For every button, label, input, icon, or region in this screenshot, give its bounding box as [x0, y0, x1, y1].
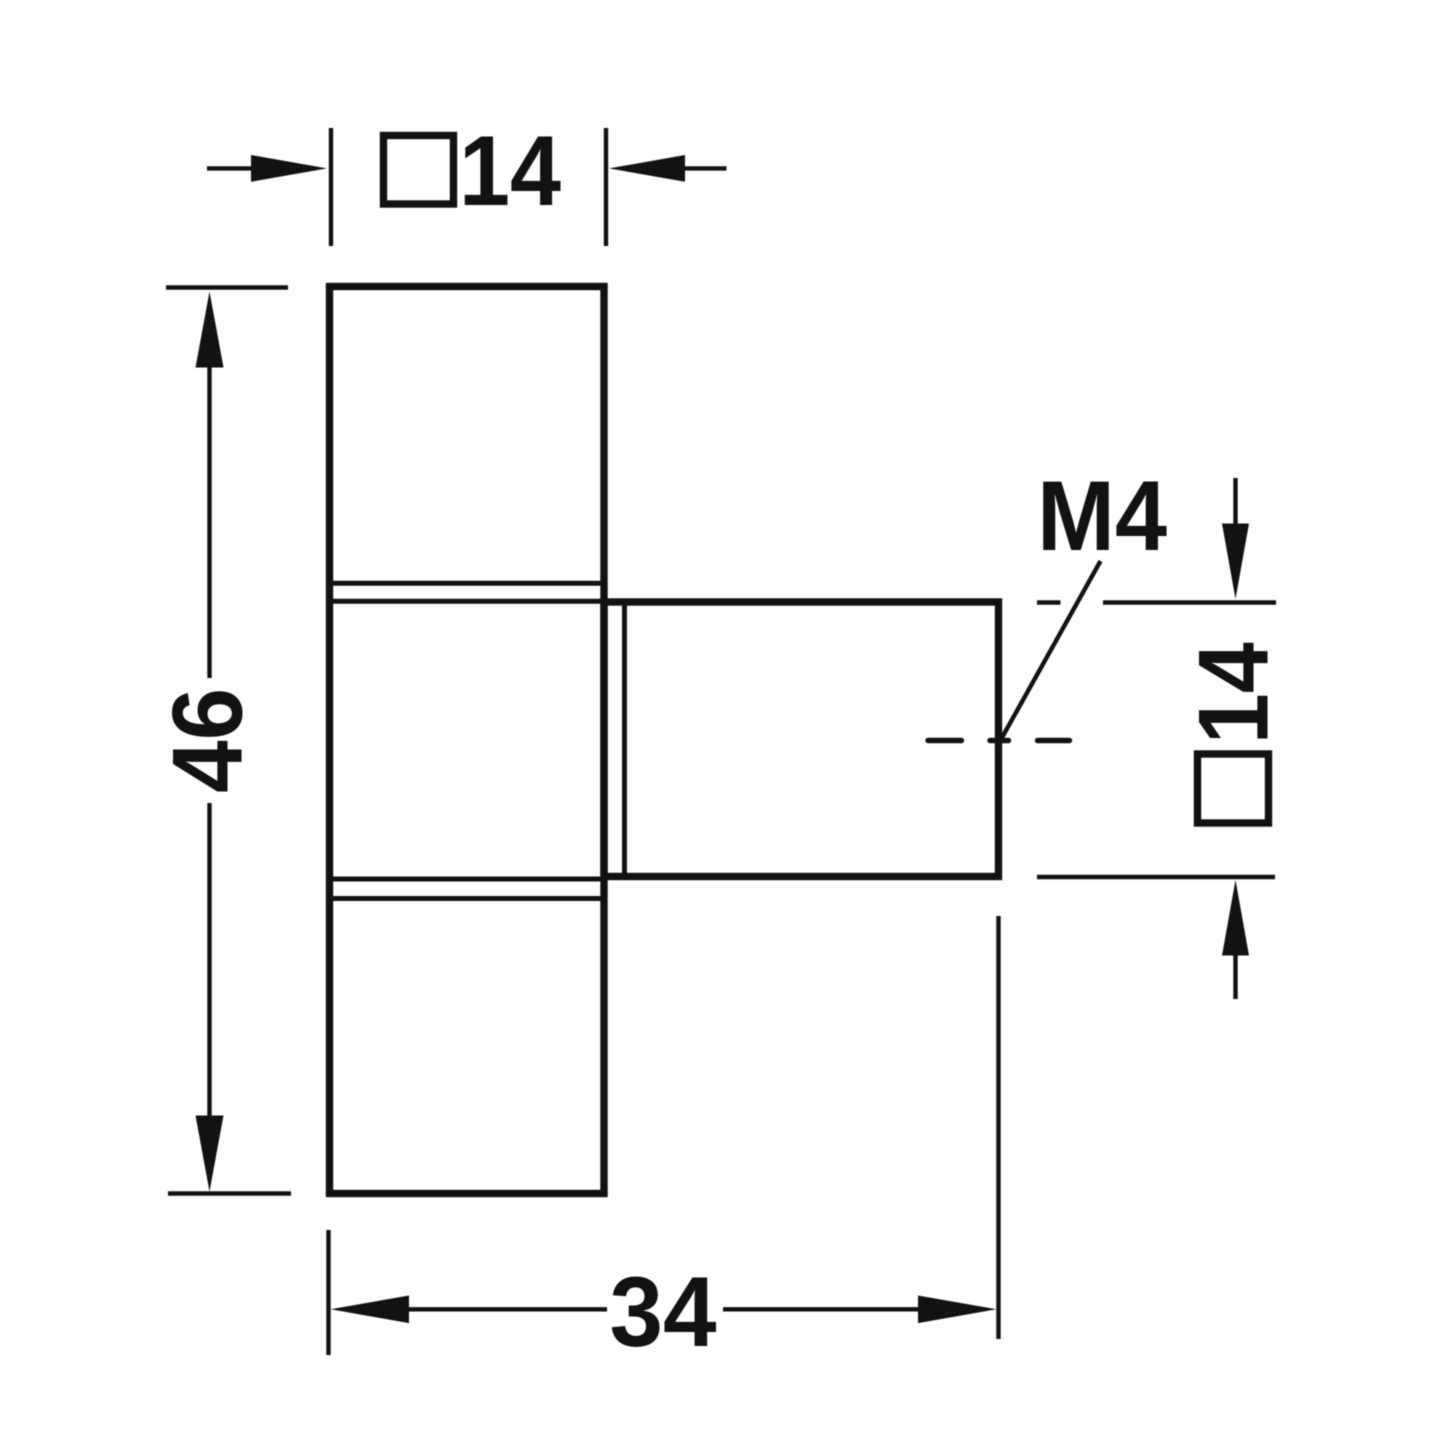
- bottom dimension arrowhead right: [918, 1296, 997, 1324]
- bottom dimension arrowhead left: [331, 1296, 410, 1324]
- top dimension arrow right shaft: [685, 166, 727, 170]
- right dimension square symbol: [1198, 754, 1269, 823]
- bottom dimension extension line right: [996, 916, 1000, 1339]
- side view: neck/base outline (34 deep, 14 sq): [604, 602, 999, 877]
- left dimension extension line top: [166, 285, 288, 289]
- left dimension arrowhead down: [196, 1116, 224, 1192]
- front view division line lower inner: [332, 877, 603, 882]
- left dimension arrowhead up: [196, 292, 224, 368]
- bottom dimension extension line left: [326, 1230, 330, 1355]
- svg-text:46: 46: [152, 688, 263, 793]
- right dimension arrowhead up: [1222, 880, 1249, 956]
- right dimension extension line top (two segments, leader gap): [1037, 600, 1061, 604]
- svg-text:M4: M4: [1037, 460, 1167, 571]
- svg-text:14: 14: [459, 115, 561, 226]
- bottom dimension line right segment: [723, 1307, 920, 1311]
- right dimension arrowhead down: [1222, 524, 1249, 600]
- svg-text:34: 34: [610, 1256, 717, 1367]
- top dimension arrowhead left (points right): [251, 155, 327, 182]
- top dimension square symbol: [384, 136, 454, 205]
- front view: knob bar outline (46 x 14): [330, 287, 605, 1194]
- front view division line upper outer: [332, 581, 603, 586]
- side view neck edge line: [622, 606, 627, 874]
- right dimension up-arrow shaft: [1233, 953, 1237, 999]
- top dimension extension line right: [604, 128, 608, 246]
- leader line to M4: [1002, 561, 1101, 739]
- bottom dimension line left segment: [407, 1307, 607, 1311]
- top dimension arrowhead right (points left): [609, 155, 685, 182]
- left dimension line upper segment: [207, 364, 211, 678]
- left dimension line lower segment: [207, 803, 211, 1119]
- left dimension extension line bottom: [168, 1191, 291, 1195]
- right dimension down-arrow shaft: [1233, 478, 1237, 526]
- top dimension arrow left shaft: [207, 166, 258, 170]
- centerline of M4 axis (dashed): [928, 738, 1070, 743]
- top dimension extension line left: [329, 128, 333, 246]
- front view division line lower outer: [332, 896, 603, 901]
- front view division line upper inner: [332, 599, 603, 604]
- right dimension extension line bottom: [1037, 875, 1275, 879]
- svg-text:14: 14: [1178, 642, 1289, 744]
